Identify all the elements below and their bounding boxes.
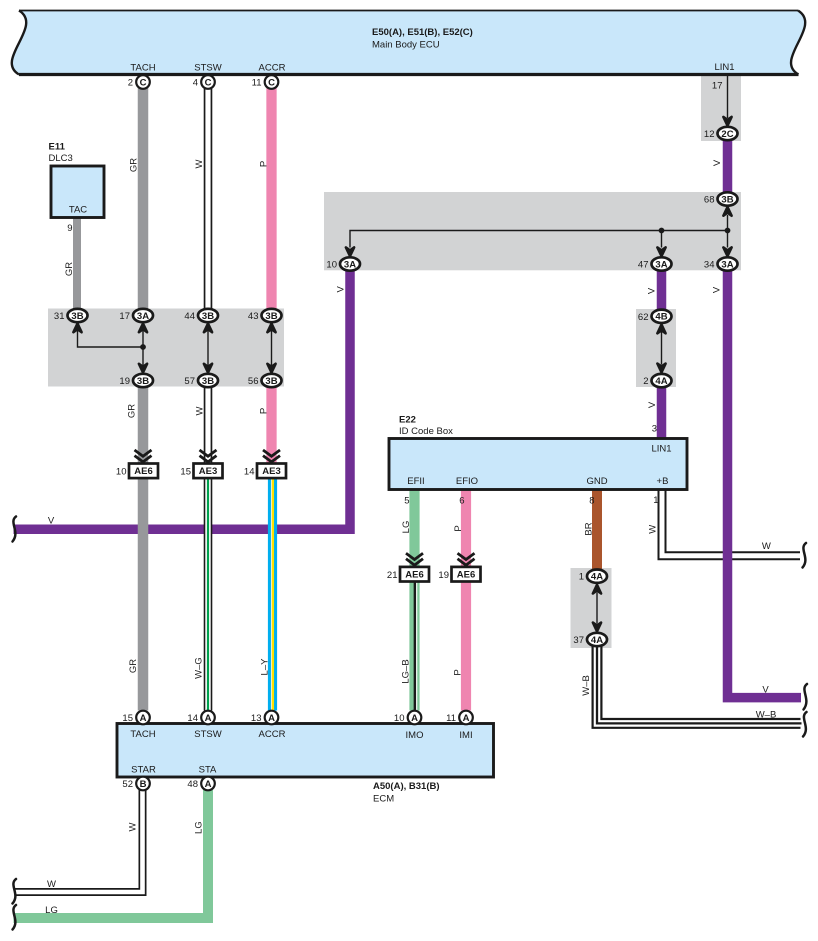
svg-text:GND: GND: [586, 476, 607, 487]
wire LG EFII upper: [409, 490, 419, 569]
connector 19 3B: [119, 374, 153, 387]
wire P EFIO upper: [461, 490, 471, 569]
arrow into AE3 15: [200, 450, 217, 462]
svg-text:C: C: [140, 77, 147, 88]
connector 10 AE6: [116, 464, 158, 479]
svg-text:E11: E11: [49, 142, 66, 153]
pin 48 A STA: [187, 777, 214, 791]
connector 19 AE6: [438, 567, 480, 582]
svg-text:LIN1: LIN1: [651, 444, 671, 455]
svg-text:E22: E22: [399, 415, 416, 426]
component ECM box: [117, 724, 494, 805]
connector 47 3A: [638, 257, 672, 270]
pin 15 A TACH: [122, 711, 149, 725]
svg-text:V: V: [762, 685, 769, 696]
svg-text:2C: 2C: [721, 129, 733, 140]
connector 12 2C: [704, 127, 738, 140]
pin 2 C TACH: [128, 75, 150, 89]
connector 34 3A: [704, 257, 738, 270]
svg-text:W–B: W–B: [756, 710, 777, 721]
svg-text:AE6: AE6: [134, 466, 152, 477]
svg-text:W: W: [128, 822, 139, 831]
svg-text:62: 62: [638, 312, 649, 323]
node junction 17/19: [140, 344, 146, 350]
svg-text:AE6: AE6: [457, 570, 475, 581]
pin 11 C ACCR: [252, 75, 279, 89]
pin 52 B STAR: [122, 777, 149, 791]
svg-text:3B: 3B: [721, 194, 733, 205]
junction shield area 4B/4A: [636, 309, 676, 387]
wire pin17 to 2C: [723, 76, 731, 126]
connector 44 3B: [184, 309, 218, 322]
svg-text:8: 8: [589, 496, 594, 507]
svg-text:3B: 3B: [202, 311, 214, 322]
svg-text:A: A: [205, 779, 212, 790]
junction shield band 3A/3B: [324, 192, 741, 270]
svg-text:LIN1: LIN1: [714, 62, 734, 73]
pin 11 A IMI: [446, 711, 473, 725]
svg-text:C: C: [268, 77, 275, 88]
svg-text:W–B: W–B: [581, 675, 592, 696]
svg-text:BR: BR: [584, 522, 595, 535]
svg-text:19: 19: [119, 376, 130, 387]
wire P ACCR upper: [266, 88, 276, 310]
svg-text:21: 21: [387, 570, 398, 581]
node junction 47: [659, 228, 665, 234]
wire V 2C to 68-3B: [723, 140, 733, 195]
svg-text:14: 14: [187, 713, 198, 724]
svg-text:STA: STA: [199, 765, 217, 776]
svg-text:V: V: [647, 401, 658, 408]
wire V 2-4A to E22 LIN1: [657, 386, 667, 440]
svg-text:47: 47: [638, 260, 649, 271]
svg-text:10: 10: [326, 260, 337, 271]
svg-text:31: 31: [54, 311, 65, 322]
svg-text:ACCR: ACCR: [259, 729, 286, 740]
node junction 34: [725, 228, 731, 234]
svg-text:14: 14: [244, 467, 255, 478]
svg-text:TACH: TACH: [130, 729, 155, 740]
connector 1 4A: [579, 570, 607, 583]
wire P ACCR middle: [266, 387, 276, 465]
wire W-B from 37-4A to right edge: [597, 645, 802, 724]
connector 43 3B: [248, 309, 282, 322]
svg-text:3B: 3B: [137, 376, 149, 387]
svg-text:STSW: STSW: [194, 63, 221, 74]
pin 14 A STSW: [187, 711, 214, 725]
svg-text:4B: 4B: [655, 312, 667, 323]
svg-text:3B: 3B: [265, 311, 277, 322]
svg-text:3: 3: [652, 424, 657, 435]
svg-text:44: 44: [184, 311, 195, 322]
svg-text:ACCR: ACCR: [259, 63, 286, 74]
svg-text:11: 11: [252, 78, 262, 89]
connector 31 3B: [54, 309, 88, 322]
svg-text:3A: 3A: [344, 259, 356, 270]
svg-text:9: 9: [67, 223, 72, 234]
svg-text:DLC3: DLC3: [49, 153, 73, 164]
svg-text:ECM: ECM: [373, 794, 394, 805]
arrow into AE6 10: [135, 450, 152, 462]
svg-text:GR: GR: [64, 262, 75, 276]
svg-text:11: 11: [446, 713, 456, 724]
svg-text:V: V: [712, 159, 723, 166]
svg-text:AE3: AE3: [199, 466, 217, 477]
svg-text:EFII: EFII: [407, 476, 424, 487]
wire LG-B EFII lower: [415, 581, 417, 711]
svg-text:3A: 3A: [137, 311, 149, 322]
wire V from 10-3A to left edge: [14, 270, 351, 529]
svg-text:10: 10: [394, 713, 405, 724]
torn edge W-B right: [803, 712, 807, 737]
svg-text:STSW: STSW: [194, 729, 221, 740]
svg-text:AE3: AE3: [262, 466, 280, 477]
svg-text:W: W: [194, 159, 205, 168]
pin 13 A ACCR: [251, 711, 278, 725]
wire 1-4A to 37-4A: [593, 585, 601, 632]
svg-text:3B: 3B: [71, 311, 83, 322]
svg-text:3B: 3B: [265, 376, 277, 387]
wire W-G STSW lower: [204, 478, 213, 711]
wire LG from 48-A to left edge: [14, 790, 209, 918]
svg-text:48: 48: [187, 779, 198, 790]
svg-text:17: 17: [119, 311, 130, 322]
svg-text:W–G: W–G: [194, 657, 205, 679]
wire BR GND: [592, 490, 602, 571]
wire P EFIO lower: [461, 581, 471, 711]
wire GR from E11 TAC: [73, 218, 81, 310]
svg-text:4: 4: [193, 78, 198, 89]
connector 14 AE3: [244, 464, 286, 479]
torn edge W left: [13, 879, 17, 904]
component E11 DLC3 box: [49, 142, 105, 218]
svg-text:15: 15: [122, 713, 133, 724]
svg-text:6: 6: [459, 496, 464, 507]
svg-text:IMO: IMO: [406, 730, 424, 741]
wire W STSW upper: [204, 88, 213, 310]
svg-text:Main Body ECU: Main Body ECU: [372, 40, 440, 51]
svg-text:13: 13: [251, 713, 262, 724]
connector 57 3B: [184, 374, 218, 387]
svg-text:A: A: [268, 713, 275, 724]
svg-text:GR: GR: [128, 659, 139, 673]
svg-text:W: W: [762, 541, 771, 552]
connector 21 AE6: [387, 567, 429, 582]
svg-text:P: P: [259, 408, 270, 414]
svg-text:A: A: [411, 713, 418, 724]
svg-text:LG: LG: [194, 821, 205, 834]
svg-text:+B: +B: [657, 476, 669, 487]
svg-text:3B: 3B: [202, 376, 214, 387]
svg-text:A: A: [463, 713, 470, 724]
wire W from 52-B to left edge: [13, 789, 143, 892]
wire L-Y ACCR lower: [271, 478, 273, 711]
svg-text:TACH: TACH: [130, 63, 155, 74]
svg-text:2: 2: [643, 376, 648, 387]
wire W from +B to right edge: [662, 490, 802, 556]
svg-text:4A: 4A: [591, 635, 603, 646]
svg-text:68: 68: [704, 195, 715, 206]
svg-text:B: B: [140, 779, 147, 790]
svg-text:L–Y: L–Y: [260, 658, 271, 676]
svg-text:43: 43: [248, 311, 259, 322]
svg-text:10: 10: [116, 467, 127, 478]
torn edge V left: [13, 517, 17, 542]
svg-text:V: V: [647, 287, 658, 294]
connector 37 4A: [573, 633, 607, 646]
svg-text:STAR: STAR: [131, 765, 156, 776]
svg-text:E50(A), E51(B), E52(C): E50(A), E51(B), E52(C): [372, 27, 473, 38]
connector 68 3B: [704, 192, 738, 205]
svg-text:TAC: TAC: [69, 205, 87, 216]
svg-text:5: 5: [404, 496, 409, 507]
wire 31-17-19 junction network: [73, 324, 147, 373]
svg-text:P: P: [453, 669, 464, 675]
wire GR TACH upper: [138, 88, 149, 310]
svg-text:A: A: [205, 713, 212, 724]
svg-text:1: 1: [653, 495, 658, 506]
svg-text:37: 37: [573, 635, 584, 646]
svg-text:LG–B: LG–B: [401, 659, 412, 683]
svg-text:V: V: [712, 286, 723, 293]
connector 2 4A: [643, 374, 671, 387]
svg-text:3A: 3A: [721, 259, 733, 270]
connector 15 AE3: [180, 464, 222, 479]
connector 62 4B: [638, 310, 672, 323]
svg-text:LG: LG: [401, 521, 412, 534]
svg-text:LG: LG: [45, 905, 58, 916]
svg-text:17: 17: [712, 81, 723, 92]
arrow into AE6 19: [458, 553, 475, 565]
svg-text:W: W: [47, 879, 56, 890]
svg-text:V: V: [48, 516, 55, 527]
junction shield area LIN1/2C: [701, 76, 741, 142]
ECU E50 band: [12, 11, 805, 75]
svg-text:52: 52: [122, 779, 133, 790]
svg-text:V: V: [336, 285, 347, 292]
svg-text:W: W: [648, 525, 659, 534]
svg-text:IMI: IMI: [459, 730, 472, 741]
svg-text:34: 34: [704, 260, 715, 271]
arrow into AE3 14: [263, 450, 280, 462]
junction shield area 4A/4A: [571, 568, 612, 648]
svg-text:ID Code Box: ID Code Box: [399, 426, 453, 437]
arrow into AE6 21: [406, 553, 423, 565]
svg-text:12: 12: [704, 129, 715, 140]
wire V 34-3A to right edge: [728, 270, 802, 698]
svg-text:A50(A), B31(B): A50(A), B31(B): [373, 781, 440, 792]
svg-text:A: A: [140, 713, 147, 724]
svg-text:3A: 3A: [655, 259, 667, 270]
wire 68-3B junction network: [346, 207, 732, 256]
svg-text:15: 15: [180, 467, 191, 478]
connector 56 3B: [248, 374, 282, 387]
junction shield band 3B/3A left: [48, 309, 284, 387]
connector 17 3A: [119, 309, 153, 322]
svg-text:W: W: [195, 406, 206, 415]
svg-text:C: C: [205, 77, 212, 88]
wire 43 to 56: [267, 324, 275, 373]
svg-text:GR: GR: [129, 158, 140, 172]
svg-text:2: 2: [128, 78, 133, 89]
svg-text:56: 56: [248, 376, 259, 387]
connector 10 3A: [326, 257, 360, 270]
wire GR TACH lower: [138, 387, 149, 711]
torn edge W right: [803, 543, 807, 568]
svg-text:EFIO: EFIO: [456, 476, 478, 487]
svg-text:4A: 4A: [591, 572, 603, 583]
wire 44 to 57: [204, 324, 212, 373]
pin 4 C STSW: [193, 75, 215, 89]
component E22 ID Code Box: [389, 415, 687, 490]
svg-text:P: P: [453, 525, 464, 531]
svg-text:1: 1: [579, 572, 584, 583]
svg-text:GR: GR: [127, 404, 138, 418]
torn edge V right: [804, 684, 808, 710]
svg-text:AE6: AE6: [405, 570, 423, 581]
svg-text:57: 57: [184, 376, 195, 387]
torn edge LG left: [13, 905, 17, 930]
pin 10 A IMO: [394, 711, 421, 725]
svg-text:P: P: [258, 161, 269, 167]
svg-text:4A: 4A: [655, 376, 667, 387]
svg-text:19: 19: [438, 570, 449, 581]
wire V 47-3A to 62-4B: [657, 270, 667, 312]
wire W STSW middle: [204, 387, 213, 465]
wire 62-4B to 2-4A: [657, 325, 665, 373]
